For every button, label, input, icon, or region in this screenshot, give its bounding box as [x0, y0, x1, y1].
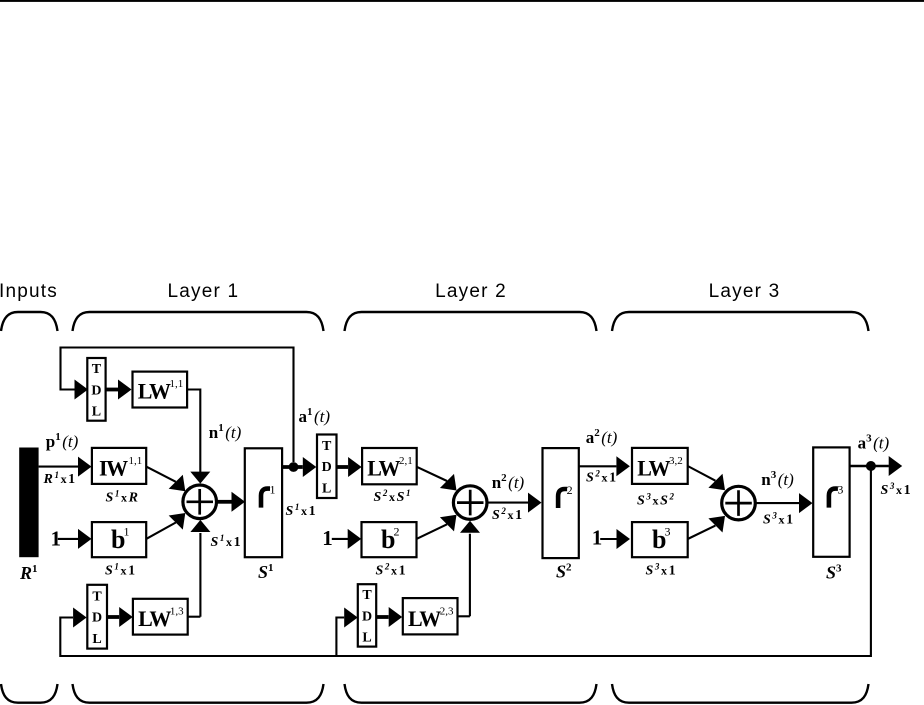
svg-text:L: L: [322, 482, 331, 497]
svg-text:T: T: [322, 439, 332, 454]
svg-text:D: D: [92, 611, 102, 626]
svg-text:Layer 1: Layer 1: [168, 281, 240, 302]
wire b3 to sum3: [688, 526, 716, 539]
svg-text:a2(t): a2(t): [586, 427, 618, 447]
node a1 junction dot: [289, 462, 299, 472]
svg-text:S2x1: S2x1: [376, 562, 406, 579]
wire LW13 up to sum1: [188, 616, 201, 618]
svg-text:Layer 2: Layer 2: [435, 281, 507, 302]
brace bottom inputs: [1, 684, 58, 703]
transfer box f2: [543, 448, 579, 558]
wire from below into sum1: [199, 533, 201, 617]
wire 1 to b3: [600, 538, 616, 540]
brace bottom layer2: [345, 684, 597, 703]
page top rule: [0, 0, 924, 2]
wire a1 feedback top: [61, 348, 294, 463]
svg-text:S1x1: S1x1: [286, 502, 316, 519]
weight box LW32: [632, 448, 688, 484]
arrow LW32 into sum3: [708, 474, 725, 491]
svg-text:1,1: 1,1: [170, 378, 184, 390]
svg-text:2,3: 2,3: [440, 605, 454, 617]
delay block TDL23: [358, 584, 376, 646]
arrow a3 output: [889, 456, 903, 476]
svg-text:Layer 3: Layer 3: [709, 281, 781, 302]
svg-text:2,1: 2,1: [399, 455, 413, 467]
wire 1 to b2: [332, 538, 348, 540]
svg-text:n1(t): n1(t): [209, 422, 242, 442]
wire a3 out of f3: [850, 465, 889, 468]
arrow into b2: [348, 529, 362, 549]
arrow sum2 to f2: [487, 502, 528, 504]
svg-text:2: 2: [394, 525, 400, 539]
svg-text:S1x1: S1x1: [211, 533, 241, 550]
svg-text:S3x1: S3x1: [763, 511, 793, 528]
wire a3 feedback bottom: [60, 466, 871, 656]
arrow into LW32: [616, 456, 630, 476]
svg-text:1,3: 1,3: [170, 606, 184, 618]
arrow into TDL13: [73, 608, 87, 628]
svg-text:S3x1: S3x1: [881, 481, 911, 498]
svg-text:1: 1: [270, 483, 276, 497]
svg-text:D: D: [322, 460, 332, 475]
wire a1 out of f1: [282, 465, 303, 469]
wire b2 to sum2: [417, 524, 448, 539]
svg-text:LW: LW: [637, 455, 670, 480]
arrow TDL11 to LW11: [106, 388, 119, 392]
svg-text:L: L: [92, 632, 101, 647]
wire p to IW11: [39, 466, 79, 468]
brace top inputs: [1, 312, 58, 331]
arrow b3 into sum3: [708, 516, 725, 533]
wire LW11 to sum1 top: [187, 390, 200, 473]
svg-text:1: 1: [322, 526, 333, 550]
svg-text:a3(t): a3(t): [858, 433, 890, 453]
arrow IW11 into sum1: [169, 475, 186, 492]
wire LW21 to sum2: [417, 467, 447, 481]
wire a3 branch to TDL23: [336, 618, 344, 657]
arrow b1 into sum1: [169, 513, 186, 530]
svg-text:S1xR: S1xR: [106, 489, 140, 506]
svg-text:T: T: [92, 589, 102, 604]
delay block TDL a1: [317, 435, 337, 499]
arrow TDL13 to LW13: [107, 615, 119, 619]
svg-text:D: D: [91, 383, 101, 398]
svg-text:T: T: [92, 362, 102, 377]
arrow sum1 to f1: [217, 500, 232, 504]
weight box LW11: [133, 372, 188, 408]
weight box LW21: [362, 448, 417, 484]
svg-text:a1(t): a1(t): [299, 406, 331, 426]
wire b1 to sum1: [146, 523, 176, 539]
wire LW32 to sum3: [688, 466, 716, 481]
arrow down into sum1: [190, 472, 210, 484]
arrow into IW11: [78, 457, 92, 477]
svg-text:2: 2: [567, 483, 573, 497]
svg-text:L: L: [92, 405, 101, 420]
svg-text:D: D: [362, 609, 372, 624]
svg-text:LW: LW: [408, 606, 441, 631]
svg-text:3: 3: [837, 483, 843, 497]
wire 1 to b1: [58, 538, 78, 540]
brace top layer2: [345, 312, 597, 331]
brace bottom layer1: [73, 684, 324, 703]
bias box b1: [92, 522, 146, 557]
svg-text:3: 3: [665, 525, 671, 539]
svg-text:L: L: [362, 631, 371, 646]
wire a2 out of f2: [579, 465, 617, 467]
arrow LW21 into sum2: [440, 474, 457, 491]
arrow TDL a1 to LW21: [337, 465, 349, 469]
svg-text:n2(t): n2(t): [492, 472, 525, 492]
wire LW23 up to sum2: [458, 615, 470, 617]
arrow into TDL11: [75, 380, 89, 400]
svg-text:LW: LW: [367, 456, 400, 481]
delay block TDL11: [87, 358, 105, 421]
weight box LW23: [403, 598, 458, 634]
svg-text:LW: LW: [138, 378, 171, 403]
node a3 junction dot: [866, 461, 876, 471]
svg-text:Inputs: Inputs: [0, 281, 58, 302]
sum junction 1: [183, 485, 217, 519]
brace top layer3: [612, 312, 869, 331]
svg-text:1: 1: [592, 526, 603, 550]
arrow sum3 to f3: [755, 502, 799, 504]
svg-text:IW: IW: [99, 455, 128, 480]
bias box b3: [632, 522, 688, 557]
input vector p1 black bar: [19, 448, 38, 558]
bias box b2: [362, 522, 417, 557]
delay block TDL13: [87, 585, 107, 649]
arrow into b1: [78, 529, 92, 549]
arrow into TDL a1: [303, 457, 317, 477]
svg-text:S3x1: S3x1: [646, 562, 676, 579]
wire IW11 to sum1: [146, 467, 176, 482]
svg-text:LW: LW: [138, 606, 171, 631]
weight box LW13: [133, 599, 188, 635]
arrow b2 into sum2: [440, 515, 457, 532]
svg-text:3,2: 3,2: [669, 455, 683, 467]
sum junction 2: [453, 486, 487, 520]
sum junction 3: [722, 486, 756, 520]
brace top layer1: [73, 312, 324, 331]
arrow into b3: [617, 529, 631, 549]
svg-text:n3(t): n3(t): [761, 469, 794, 489]
svg-text:1,1: 1,1: [129, 455, 143, 467]
svg-text:S2x1: S2x1: [586, 469, 616, 486]
svg-text:T: T: [362, 588, 372, 603]
svg-text:S1x1: S1x1: [105, 562, 135, 579]
svg-text:p1(t): p1(t): [46, 431, 79, 451]
transfer box f3: [813, 447, 849, 556]
svg-text:S2x1: S2x1: [492, 506, 522, 523]
brace bottom layer3: [612, 684, 869, 703]
arrow into TDL23: [344, 608, 358, 628]
weight box IW11: [92, 448, 146, 484]
transfer box f1: [245, 448, 282, 557]
svg-text:1: 1: [124, 525, 130, 539]
arrow TDL23 to LW23: [376, 615, 388, 619]
wire from below into sum2: [469, 534, 471, 617]
